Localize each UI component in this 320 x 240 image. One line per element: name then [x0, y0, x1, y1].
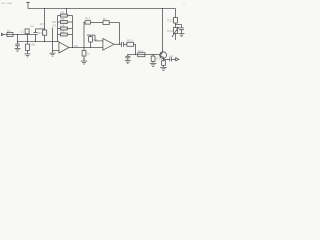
resistor R9 — [83, 48, 85, 51]
wire link — [36, 28, 45, 30]
wire — [152, 61, 154, 63]
node O — [163, 59, 164, 60]
title text — [2, 1, 13, 5]
wire — [44, 9, 46, 31]
node G — [90, 47, 91, 48]
svg-text:R7: R7 — [103, 17, 107, 21]
capacitor C9 — [170, 57, 172, 61]
op-amp U2 — [103, 39, 114, 51]
node M — [153, 54, 154, 55]
wire tick — [87, 34, 95, 36]
ground — [25, 54, 31, 57]
node E — [72, 47, 73, 48]
wire — [52, 28, 54, 42]
wire bus B — [18, 41, 59, 43]
capacitor C6 — [121, 42, 123, 47]
capacitor C1 — [25, 29, 29, 34]
ground — [15, 48, 21, 51]
capacitor C2 — [33, 29, 37, 42]
wire — [175, 34, 177, 41]
label net — [74, 44, 79, 48]
svg-text:C2: C2 — [30, 24, 34, 28]
corner mark — [184, 3, 185, 4]
svg-text:R13: R13 — [167, 19, 173, 23]
capacitor C4 — [58, 28, 61, 30]
node P — [83, 58, 84, 59]
wire input — [4, 34, 34, 36]
node N — [175, 24, 176, 25]
wire mid vertical — [83, 23, 85, 48]
node J — [119, 44, 120, 45]
node w4 — [44, 41, 45, 42]
wire — [172, 58, 176, 60]
potentiometer R14 — [175, 23, 177, 28]
node C — [44, 28, 45, 29]
svg-text:C5: C5 — [61, 30, 65, 34]
svg-text:R6: R6 — [61, 17, 65, 21]
svg-text:R14: R14 — [167, 29, 173, 33]
wire out bus — [127, 54, 159, 56]
node F — [83, 47, 84, 48]
wire top rail — [28, 8, 176, 10]
ground — [50, 53, 56, 56]
wire output — [164, 58, 170, 60]
node rail-R2 — [44, 8, 45, 9]
node w5 — [52, 41, 53, 42]
supply terminal — [26, 2, 30, 8]
svg-text:R10: R10 — [127, 39, 133, 43]
wire — [134, 44, 136, 54]
resistor R10 — [127, 42, 134, 46]
capacitor C5 — [58, 34, 61, 36]
wire — [52, 51, 54, 53]
transistor Q2 — [160, 52, 167, 59]
wire — [163, 65, 165, 67]
node w3 — [35, 41, 36, 42]
resistor R7 — [103, 21, 109, 25]
resistor R15 — [162, 61, 166, 66]
wire — [90, 42, 92, 48]
node L — [135, 54, 136, 55]
svg-text:C0: C0 — [52, 24, 56, 28]
wire — [66, 9, 68, 15]
resistor R1 — [7, 33, 13, 37]
resistor R6 — [58, 21, 61, 23]
ground — [150, 63, 157, 66]
ground — [125, 61, 131, 64]
node B — [27, 34, 28, 35]
resistor R13 — [175, 9, 177, 18]
resistor R16 — [84, 22, 85, 24]
resistor R11 — [138, 53, 145, 57]
ground — [160, 67, 167, 70]
twin-T left rail — [57, 16, 59, 42]
svg-text:a-c: a-c — [2, 1, 7, 5]
svg-text:R1: R1 — [7, 29, 11, 33]
resistor R5 — [58, 15, 61, 17]
capacitor C8 — [176, 25, 184, 34]
wire feedback — [91, 22, 104, 24]
svg-text:C4: C4 — [61, 24, 65, 28]
svg-text:4k7: 4k7 — [40, 22, 45, 26]
svg-text:out: out — [169, 54, 173, 58]
svg-text:osc: osc — [7, 1, 12, 5]
wire U2 out — [114, 43, 121, 45]
wire emitter — [163, 58, 165, 61]
wire — [27, 33, 29, 36]
svg-text:1k: 1k — [87, 52, 91, 56]
node rail-right — [162, 8, 163, 9]
capacitor C3 — [15, 35, 19, 49]
resistor R2 — [43, 30, 47, 35]
node w1 — [17, 41, 18, 42]
wire — [109, 23, 119, 45]
ground — [81, 61, 88, 64]
svg-text:R16: R16 — [85, 16, 91, 20]
op-amp U1 — [59, 42, 69, 53]
svg-text:C1: C1 — [20, 29, 24, 33]
svg-text:R5: R5 — [61, 11, 65, 15]
wire noninv — [53, 42, 59, 51]
twin-T right rail — [72, 16, 74, 48]
resistor R8 — [90, 35, 92, 36]
input terminal — [1, 33, 3, 35]
wire — [123, 43, 127, 45]
resistor R3 — [27, 35, 29, 44]
resistor R12 — [152, 55, 154, 57]
svg-text:R2: R2 — [38, 31, 42, 35]
ground — [179, 34, 185, 37]
wire inv input — [95, 35, 103, 41]
label R4 — [52, 20, 56, 27]
output terminal — [176, 58, 179, 61]
node A — [17, 34, 18, 35]
node I — [83, 22, 84, 23]
capacitor C7 — [125, 55, 130, 61]
svg-text:10k: 10k — [30, 43, 35, 47]
node D — [52, 50, 53, 51]
node rail-ladder — [66, 8, 67, 9]
wire rail drop — [162, 9, 164, 53]
svg-text:R11: R11 — [138, 49, 144, 53]
wire U1 out — [69, 47, 103, 49]
wire — [44, 35, 46, 41]
node w2 — [27, 41, 28, 42]
